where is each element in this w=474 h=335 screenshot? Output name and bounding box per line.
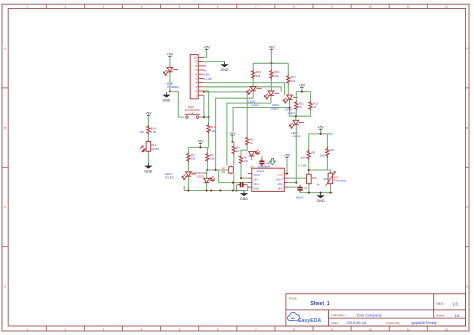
wire R8-R9 bridge bbox=[309, 169, 328, 171]
wire +5V rail (IR emitter) bbox=[188, 146, 208, 148]
svg-text:R9: R9 bbox=[330, 148, 334, 152]
resistor R9 bbox=[326, 147, 329, 159]
wire rail to R2 bbox=[187, 147, 189, 152]
thermistor RT1 bbox=[329, 172, 331, 185]
wire R9 to RT1 bbox=[327, 158, 330, 172]
junction node LED8 net bbox=[289, 107, 291, 109]
connector header P1 EVQ 10-pin bbox=[190, 55, 198, 99]
junction node 2OUT net bbox=[308, 177, 310, 179]
svg-text:9: 9 bbox=[331, 5, 333, 9]
svg-text:1OUT: 1OUT bbox=[253, 173, 261, 177]
junction node R6-1IN- bbox=[240, 177, 242, 179]
junction node 2IN- net bbox=[295, 182, 297, 184]
wire RT1 to ground rail bbox=[329, 185, 331, 193]
svg-text:0-1.5M: 0-1.5M bbox=[204, 77, 212, 81]
junction node R18-top bbox=[208, 116, 210, 118]
wire R7 to ground rail bbox=[233, 174, 235, 190]
resistor R6 bbox=[239, 155, 242, 164]
svg-text:1IN-: 1IN- bbox=[253, 178, 258, 182]
EasyEDA logo bbox=[288, 312, 300, 320]
junction node IR rail bbox=[199, 146, 201, 148]
svg-text:2IN+: 2IN+ bbox=[277, 187, 283, 191]
wire R16 to LED3 bbox=[270, 80, 272, 91]
wire rail to R16 bbox=[270, 63, 272, 69]
junction node rail-a bbox=[210, 190, 212, 192]
svg-text:R5: R5 bbox=[250, 137, 254, 141]
resistor R17 bbox=[287, 74, 290, 84]
resistor R8 bbox=[307, 149, 310, 161]
svg-text:Drawn By:: Drawn By: bbox=[387, 321, 401, 325]
wire switch to junction bbox=[199, 116, 209, 118]
svg-text:Company:: Company: bbox=[332, 313, 346, 317]
svg-text:+5V: +5V bbox=[229, 132, 236, 136]
junction node LED7 top bbox=[295, 115, 297, 117]
junction node switch-right bbox=[203, 116, 205, 118]
LED8 indicator bbox=[287, 95, 293, 99]
resistor R14 bbox=[147, 125, 150, 135]
svg-text:12: 12 bbox=[445, 327, 449, 331]
wire LED2 net vertical bbox=[216, 98, 254, 170]
svg-text:0-1.5M: 0-1.5M bbox=[298, 163, 306, 167]
title block grid bbox=[286, 294, 466, 326]
junction node pin2 net bbox=[203, 91, 205, 93]
svg-text:1k: 1k bbox=[250, 141, 253, 145]
ground flag GND (op-amp) bbox=[243, 191, 245, 194]
svg-text:2019-06-18: 2019-06-18 bbox=[347, 321, 366, 325]
svg-text:3: 3 bbox=[103, 5, 105, 9]
ground flag GND (header pin9) bbox=[224, 62, 226, 65]
wire R10 to ground rail bbox=[308, 185, 310, 193]
svg-text:10: 10 bbox=[368, 327, 372, 331]
junction node rail-GND2 bbox=[320, 192, 322, 194]
wire LED8 to LED7 node bbox=[290, 100, 296, 120]
junction node rail-LED4 bbox=[187, 190, 189, 192]
svg-text:B: B bbox=[4, 126, 6, 130]
pushbutton switch SW1 bbox=[186, 116, 188, 118]
svg-text:8: 8 bbox=[293, 5, 295, 9]
svg-text:IR LED: IR LED bbox=[165, 176, 174, 180]
svg-text:output: output bbox=[251, 103, 259, 107]
svg-text:output: output bbox=[271, 107, 279, 111]
svg-text:1IN+: 1IN+ bbox=[253, 182, 259, 186]
wire R11 supply rail bbox=[296, 91, 310, 93]
resistor R4 bbox=[232, 145, 235, 155]
junction node LED rail bbox=[270, 62, 272, 64]
svg-text:+5V: +5V bbox=[203, 46, 210, 50]
infrared receiver LED1 bbox=[249, 152, 255, 156]
svg-text:A: A bbox=[4, 46, 6, 50]
wire ground rail left rise bbox=[183, 186, 185, 191]
wire header pin9 to GND bbox=[204, 61, 225, 63]
svg-text:EVQ22705R: EVQ22705R bbox=[185, 108, 200, 112]
wire R11 R12 to LED7 node bbox=[296, 111, 310, 117]
svg-text:12: 12 bbox=[445, 5, 449, 9]
svg-text:10k: 10k bbox=[274, 74, 279, 78]
wire LED6 node to switch SW1 bbox=[170, 92, 184, 118]
wire LED6 cathode to GND node bbox=[169, 72, 171, 91]
svg-text:+5V: +5V bbox=[284, 154, 291, 158]
capacitor C3 (filter) bbox=[238, 184, 241, 186]
svg-text:10k: 10k bbox=[139, 130, 144, 134]
svg-text:GND: GND bbox=[253, 187, 259, 191]
wire junction to R18 bbox=[208, 117, 210, 123]
svg-text:output: output bbox=[288, 111, 296, 115]
junction node R10 top bbox=[308, 169, 310, 171]
resistor R11 bbox=[295, 101, 298, 111]
junction node LED6-GND bbox=[169, 90, 171, 92]
svg-text:GND: GND bbox=[240, 197, 248, 201]
LED7 indicator bbox=[293, 120, 299, 124]
svg-text:11: 11 bbox=[407, 327, 410, 331]
schematic drawing bbox=[139, 46, 346, 204]
svg-text:Date:: Date: bbox=[332, 321, 340, 325]
svg-text:PHOTODIODE: PHOTODIODE bbox=[189, 171, 208, 175]
svg-text:10k: 10k bbox=[221, 170, 226, 174]
wire right ground rail bbox=[300, 191, 333, 192]
wire LED7 to comparator net bbox=[295, 125, 297, 183]
resistor R3 bbox=[206, 152, 209, 162]
svg-text:Av: Av bbox=[317, 182, 321, 186]
photoresistor R13 (LDR) bbox=[147, 140, 149, 152]
net port output arrow bbox=[270, 159, 276, 165]
wire C3 left bbox=[237, 184, 238, 186]
wire rail to R11 bbox=[295, 92, 297, 101]
LED2 indicator bbox=[250, 86, 256, 90]
svg-text:1/1: 1/1 bbox=[455, 314, 460, 318]
svg-text:B: B bbox=[466, 126, 468, 130]
wire rail to R12 bbox=[310, 92, 312, 101]
svg-text:Your Company: Your Company bbox=[357, 313, 382, 317]
wire pin2 net to R5 bbox=[204, 92, 247, 137]
wire R15 to LED2 bbox=[252, 80, 254, 87]
wire rail to R3 bbox=[206, 147, 208, 152]
wire rail to R17 bbox=[287, 63, 289, 74]
capacitor C2 bbox=[299, 185, 301, 188]
svg-text:100nF: 100nF bbox=[296, 195, 304, 199]
resistor R16 bbox=[270, 69, 273, 79]
wire +5V to R14 bbox=[147, 116, 149, 125]
wire +5V stub thermistor rail bbox=[320, 130, 322, 134]
svg-text:R10: R10 bbox=[312, 176, 317, 180]
wire LED5 to ground rail bbox=[206, 183, 208, 191]
junction node rail-c bbox=[236, 190, 238, 192]
LED3 indicator bbox=[268, 91, 274, 95]
svg-text:2OUT: 2OUT bbox=[276, 178, 284, 182]
wire LED1 to cap C1 node bbox=[251, 156, 253, 160]
wire 2IN+ to cap C2 bbox=[288, 185, 300, 188]
wire LED3 net vertical bbox=[227, 103, 271, 166]
junction node photodiode bbox=[206, 169, 208, 171]
wire rail to R8 bbox=[308, 134, 310, 149]
wire R5 to R6 bbox=[241, 145, 247, 155]
svg-text:10k: 10k bbox=[320, 153, 325, 157]
wire rail to R9 bbox=[326, 134, 328, 147]
wire R4 to trimmer R7 bbox=[233, 155, 235, 166]
wire header pin2 to R18 node bbox=[204, 91, 209, 117]
svg-text:Thermistor: Thermistor bbox=[334, 179, 347, 183]
svg-text:330: 330 bbox=[191, 157, 196, 161]
wire middle ground rail bbox=[184, 190, 248, 192]
svg-text:EasyEDA: EasyEDA bbox=[298, 318, 321, 324]
photodiode LED5 bbox=[204, 178, 210, 182]
svg-text:+5V: +5V bbox=[145, 112, 152, 116]
resistor R15 bbox=[252, 69, 255, 79]
svg-text:C2: C2 bbox=[304, 186, 308, 190]
svg-text:GND: GND bbox=[163, 99, 171, 103]
svg-text:R6: R6 bbox=[244, 155, 248, 159]
svg-text:A1060: A1060 bbox=[151, 147, 160, 151]
ground flag GND (LED6) bbox=[166, 92, 168, 95]
svg-text:VCC: VCC bbox=[277, 173, 283, 177]
wire R8 to R10 node bbox=[308, 161, 310, 174]
wire R4 node link bbox=[232, 142, 233, 145]
LED4 infrared emitter bbox=[186, 172, 192, 176]
wire +5V to LED6 anode bbox=[169, 57, 171, 67]
trimmer resistor R7 bbox=[230, 166, 232, 175]
svg-text:R4: R4 bbox=[236, 146, 240, 150]
wire header pin10 to +5V bbox=[204, 50, 207, 57]
LED POWER indicator LED6 bbox=[167, 67, 173, 71]
wire +5V to R4 node bbox=[231, 136, 233, 142]
svg-text:7k: 7k bbox=[303, 156, 307, 160]
svg-text:Sheet_1: Sheet_1 bbox=[311, 301, 330, 307]
wire R7 wiper to 1IN+ bbox=[219, 171, 248, 183]
junction node thermistor rail bbox=[320, 133, 322, 135]
wire node to LED5 bbox=[206, 170, 208, 178]
svg-text:10k: 10k bbox=[256, 74, 261, 78]
resistor R2 bbox=[187, 152, 190, 162]
wire R2 to LED4 bbox=[187, 162, 189, 171]
svg-text:6: 6 bbox=[217, 5, 219, 9]
wire header pin4 bus right bbox=[204, 83, 285, 95]
svg-text:10k: 10k bbox=[291, 79, 296, 83]
wire R14 to photoresistor R13 bbox=[147, 135, 149, 141]
svg-text:flu: flu bbox=[204, 68, 207, 72]
svg-text:1.5M: 1.5M bbox=[204, 73, 210, 77]
svg-text:2: 2 bbox=[65, 5, 67, 9]
wire +5V stub (LED rail) bbox=[270, 50, 272, 63]
svg-text:A: A bbox=[466, 46, 468, 50]
wire header pin3 bus right bbox=[204, 87, 282, 92]
ground flag GND (LDR) bbox=[147, 163, 149, 166]
svg-text:10: 10 bbox=[368, 5, 372, 9]
junction node rail-LED5 bbox=[206, 190, 208, 192]
capacitor C1 (bypass) bbox=[261, 159, 263, 162]
svg-text:R8: R8 bbox=[312, 150, 316, 154]
svg-text:C: C bbox=[4, 205, 7, 209]
svg-text:1k: 1k bbox=[236, 149, 239, 153]
svg-text:7k: 7k bbox=[313, 105, 317, 109]
ground flag GND (thermistor) bbox=[320, 193, 322, 196]
svg-text:+5V: +5V bbox=[268, 46, 275, 50]
svg-text:1.0: 1.0 bbox=[452, 301, 458, 306]
junction node R11 rail bbox=[301, 91, 303, 93]
wire +5V stub R11 rail bbox=[301, 88, 303, 91]
wire LED2 to net bbox=[252, 91, 254, 98]
wire C3 right bbox=[246, 184, 248, 186]
wire thermistor supply rail bbox=[309, 133, 333, 135]
wire header pin1 to switch node bbox=[203, 95, 205, 117]
svg-text:7k: 7k bbox=[299, 105, 303, 109]
wire C1 top bbox=[261, 156, 263, 158]
wire LED8 net vertical bbox=[233, 108, 290, 132]
wire +5V stub (IR rail) bbox=[199, 144, 201, 147]
svg-text:+5V: +5V bbox=[299, 84, 306, 88]
svg-text:IR: IR bbox=[204, 64, 207, 68]
junction node rail-R7 bbox=[232, 190, 234, 192]
wire 2OUT to thermistor bridge bbox=[288, 177, 309, 179]
svg-text:1.0k: 1.0k bbox=[151, 130, 157, 134]
svg-text:5: 5 bbox=[179, 5, 181, 9]
border ruler ticks bbox=[45, 4, 47, 8]
junction node rail-R10 bbox=[308, 192, 310, 194]
junction node rail-RT1 bbox=[329, 192, 331, 194]
resistor R18 bbox=[207, 123, 210, 133]
op-amp U2 body bbox=[252, 168, 284, 191]
svg-text:TITLE:: TITLE: bbox=[289, 296, 298, 300]
variable resistor R10 bbox=[308, 173, 310, 185]
svg-text:11: 11 bbox=[407, 5, 410, 9]
junction node VCC bbox=[286, 173, 288, 175]
resistor R5 bbox=[246, 137, 249, 146]
svg-text:GND: GND bbox=[144, 170, 152, 174]
svg-text:10k: 10k bbox=[244, 159, 249, 163]
svg-text:4: 4 bbox=[141, 5, 143, 9]
svg-text:GND: GND bbox=[317, 199, 325, 203]
svg-text:POWER: POWER bbox=[167, 85, 179, 89]
wire rail to R15 bbox=[252, 63, 254, 69]
svg-text:2IN-: 2IN- bbox=[278, 182, 283, 186]
svg-text:7: 7 bbox=[255, 5, 257, 9]
svg-text:output: output bbox=[257, 169, 265, 173]
junction node LED2 net bbox=[215, 169, 217, 171]
wire LED supply rail bbox=[253, 62, 288, 64]
svg-text:+5V: +5V bbox=[167, 53, 174, 57]
wire R6 to op-amp 1IN- bbox=[241, 164, 248, 178]
wire +5V to VCC pin bbox=[287, 158, 288, 173]
wire R7 left terminal bbox=[228, 169, 229, 171]
wire R18 to +5V rail bbox=[208, 134, 210, 148]
junction node rail-b bbox=[219, 190, 221, 192]
junction node R4 top bbox=[231, 141, 233, 143]
svg-text:REV:: REV: bbox=[437, 302, 444, 306]
svg-text:gopal36Treddy: gopal36Treddy bbox=[412, 321, 437, 325]
wire photodiode node to R7 bbox=[207, 169, 227, 171]
svg-text:1: 1 bbox=[26, 5, 28, 9]
wire net to 2IN- bbox=[288, 182, 296, 184]
svg-text:Sheet:: Sheet: bbox=[436, 314, 445, 318]
wire R13 to GND bbox=[147, 152, 149, 163]
svg-text:10k: 10k bbox=[210, 157, 215, 161]
wire U2 GND pin to rail bbox=[247, 187, 249, 190]
wire LED4 to ground rail bbox=[187, 176, 189, 190]
wire R17 to LED8 bbox=[287, 85, 289, 95]
wire LED3 to net bbox=[270, 96, 272, 104]
svg-text:103: 103 bbox=[323, 177, 328, 181]
svg-text:+5V: +5V bbox=[197, 140, 204, 144]
junction node 1IN+ bbox=[232, 182, 234, 184]
svg-text:+5V: +5V bbox=[317, 125, 324, 129]
wire R3 to photodiode node bbox=[206, 162, 208, 170]
svg-text:GND: GND bbox=[221, 68, 229, 72]
resistor R12 bbox=[309, 101, 312, 111]
svg-text:D: D bbox=[4, 285, 7, 289]
